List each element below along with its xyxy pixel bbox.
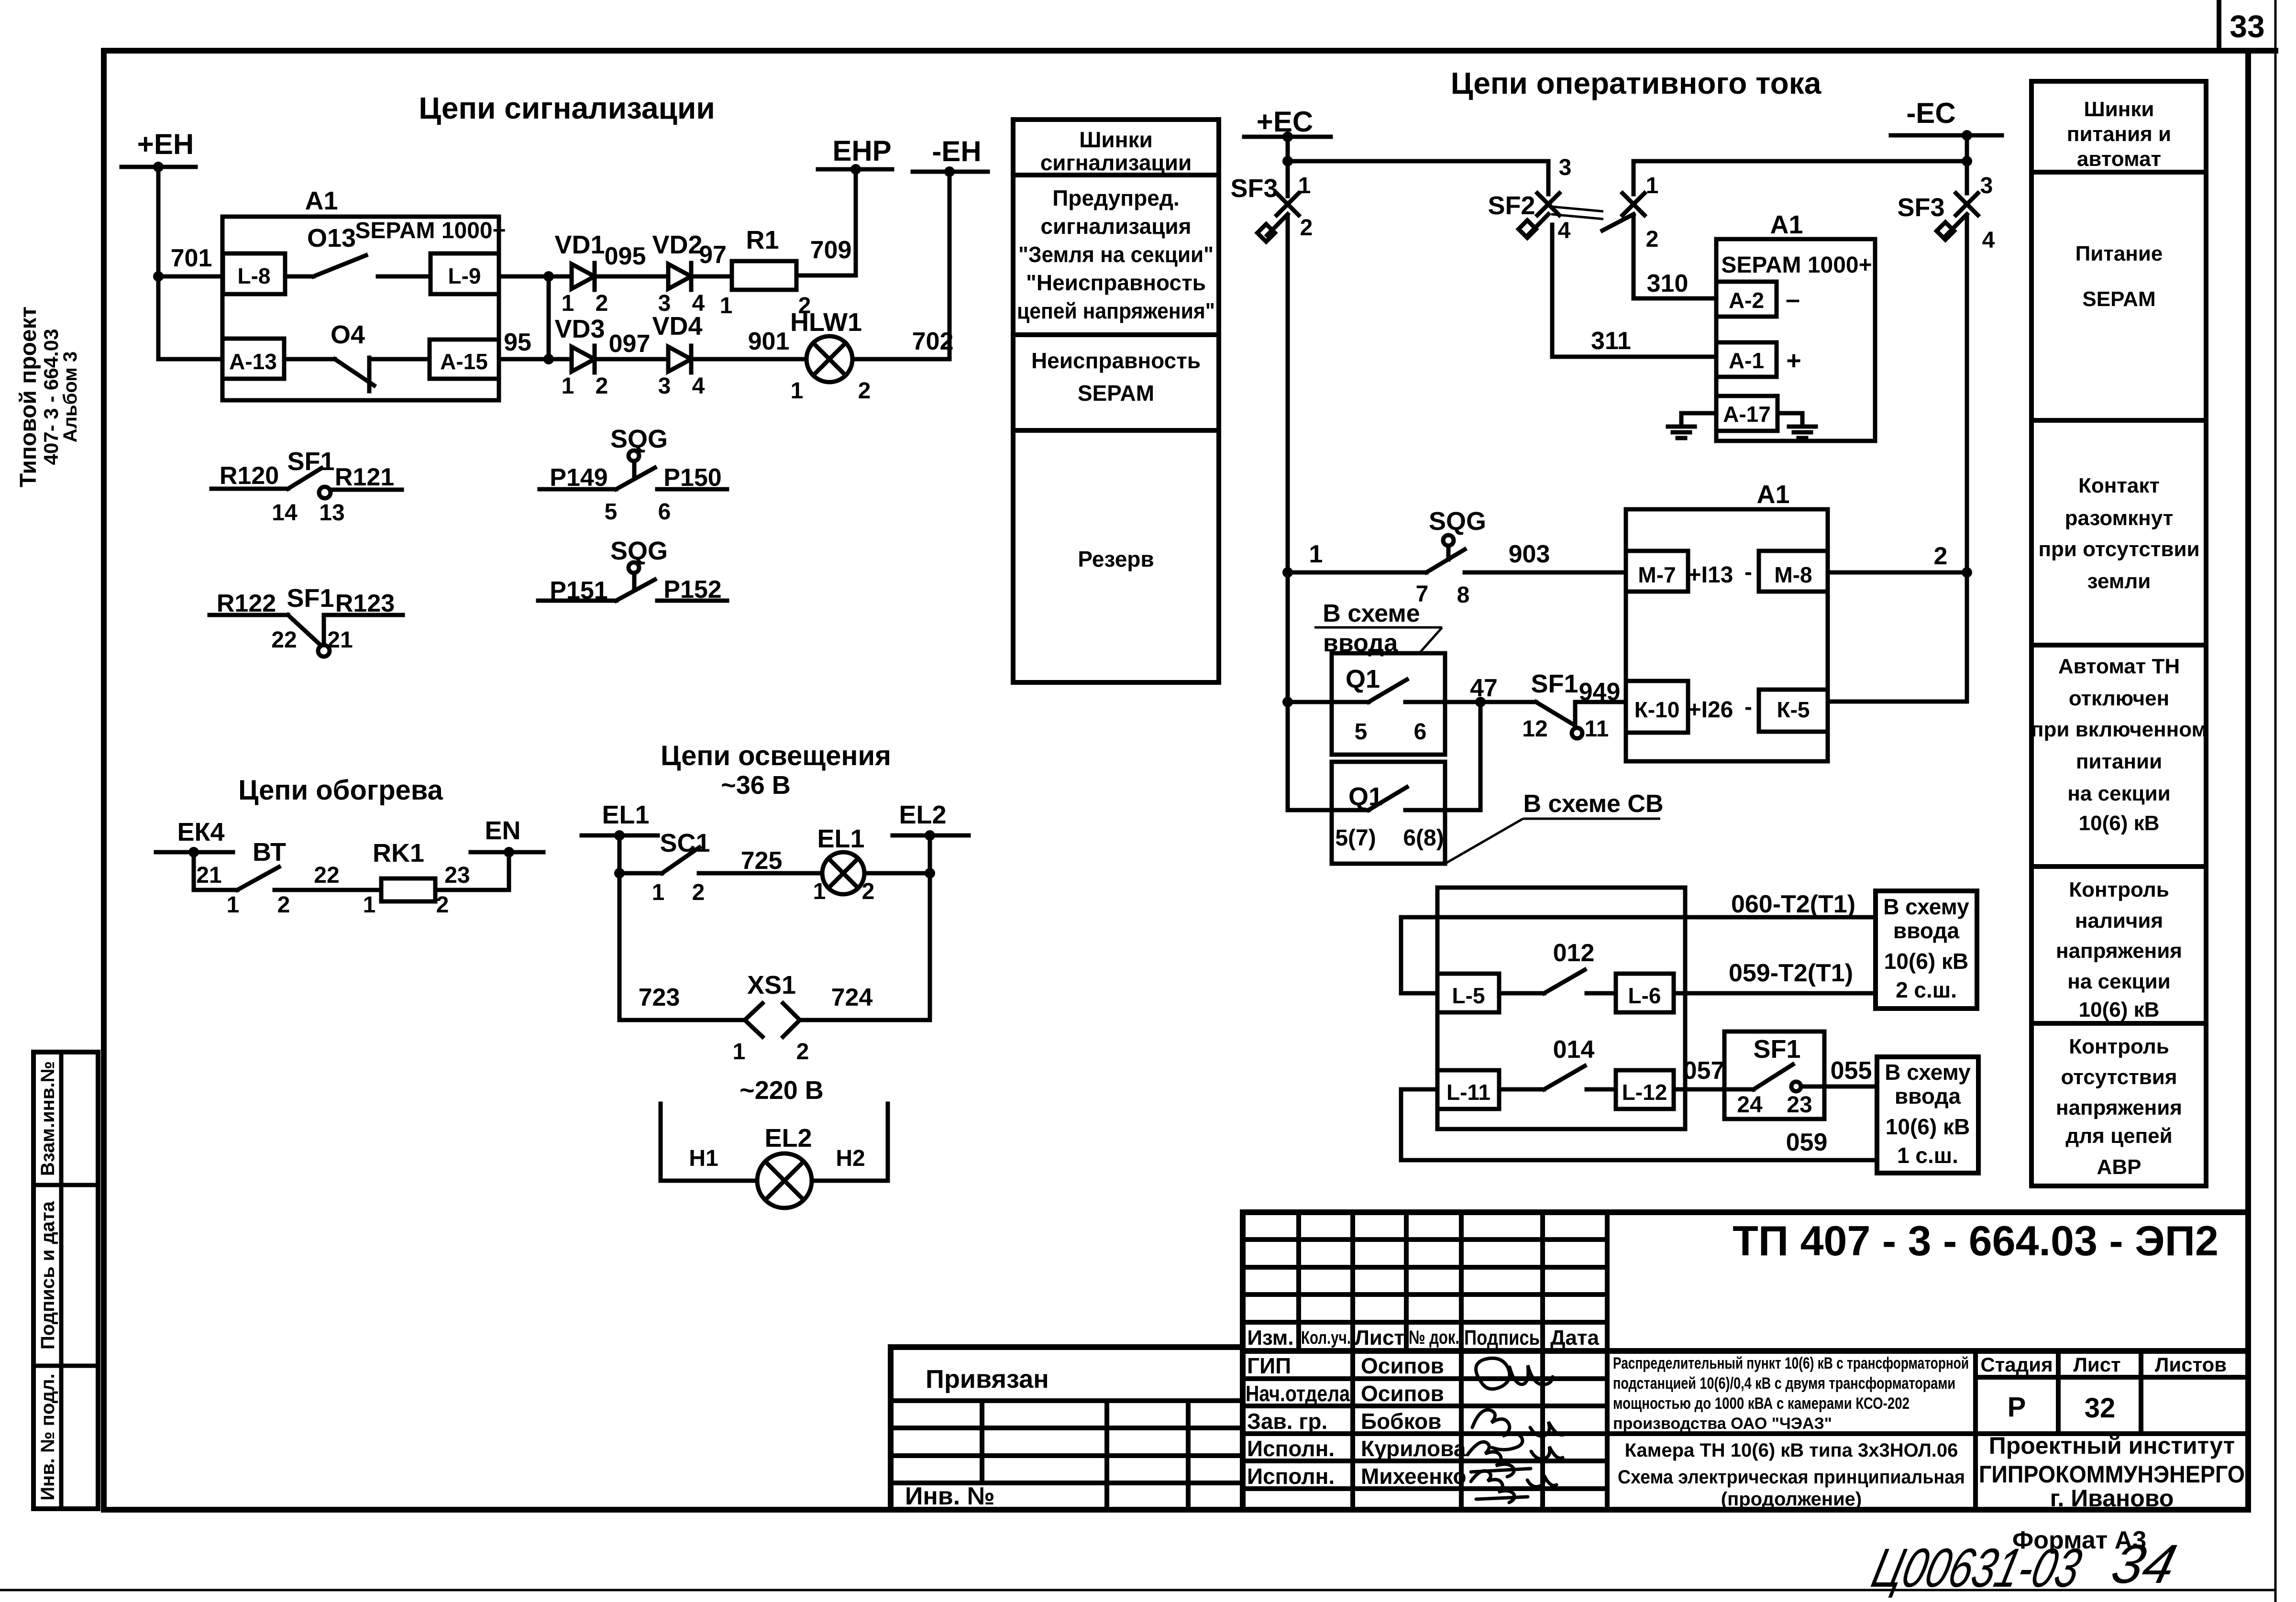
relay unit A1 box (M/K terminals) [1626, 509, 1828, 761]
box В схему ввода 1 с.ш. [1877, 1057, 1978, 1173]
svg-text:Взам.инв.№: Взам.инв.№ [37, 1061, 58, 1176]
signature Осипов [1476, 1358, 1553, 1389]
signature Курилова [1468, 1442, 1563, 1477]
svg-text:2: 2 [1646, 227, 1659, 252]
wire 1 to SQG [1288, 571, 1426, 575]
svg-text:SF1: SF1 [287, 447, 334, 476]
svg-text:10(6) кВ: 10(6) кВ [2079, 812, 2160, 835]
svg-text:Зав. гр.: Зав. гр. [1247, 1409, 1327, 1434]
svg-text:8: 8 [1457, 582, 1470, 608]
svg-text:В схему: В схему [1885, 1060, 1971, 1085]
svg-text:"Земля на секции": "Земля на секции" [1018, 242, 1214, 267]
svg-text:R1: R1 [746, 226, 779, 254]
wire RK1 to EN [435, 852, 509, 890]
svg-text:при включенном: при включенном [2031, 718, 2207, 741]
wire +EC to SF2 [1288, 161, 1548, 194]
svg-text:А-15: А-15 [440, 349, 488, 374]
svg-text:Н1: Н1 [689, 1146, 718, 1171]
svg-text:на секции: на секции [2067, 970, 2170, 993]
svg-text:Лист: Лист [2073, 1353, 2120, 1376]
node 47 [1475, 697, 1486, 707]
svg-text:2 с.ш.: 2 с.ш. [1896, 977, 1957, 1002]
svg-text:Формат А3: Формат А3 [2012, 1526, 2146, 1554]
svg-text:ГИП: ГИП [1247, 1353, 1291, 1378]
svg-text:Н2: Н2 [836, 1146, 865, 1171]
svg-text:SQG: SQG [610, 537, 668, 565]
svg-text:~36 В: ~36 В [721, 771, 791, 800]
svg-text:VD2: VD2 [652, 230, 702, 259]
svg-text:сигнализации: сигнализации [1040, 150, 1192, 175]
voltage control unit box [1437, 888, 1685, 1129]
breaker Q1 upper box [1332, 653, 1445, 755]
wire 701 [158, 274, 223, 279]
svg-text:Привязан: Привязан [926, 1365, 1049, 1394]
svg-text:24: 24 [1737, 1092, 1763, 1118]
svg-text:L-5: L-5 [1452, 983, 1485, 1008]
svg-text:6: 6 [1414, 719, 1427, 745]
svg-text:Стадия: Стадия [1980, 1353, 2053, 1376]
svg-text:055: 055 [1831, 1057, 1872, 1085]
contact Q1 lower [1288, 808, 1369, 812]
svg-text:Q1: Q1 [1346, 665, 1380, 693]
terminal K-5 [1759, 690, 1828, 732]
svg-text:ЕК4: ЕК4 [177, 818, 224, 846]
wire into L-5 [1401, 991, 1437, 996]
svg-text:1: 1 [227, 892, 240, 918]
svg-text:Контроль: Контроль [2069, 878, 2169, 901]
svg-text:2: 2 [596, 373, 608, 399]
wire EK4 down [194, 852, 237, 890]
svg-text:XS1: XS1 [747, 971, 796, 999]
svg-text:Типовой проект: Типовой проект [16, 307, 41, 487]
svg-text:723: 723 [639, 984, 680, 1011]
svg-text:Инв. №: Инв. № [905, 1482, 995, 1510]
svg-text:701: 701 [171, 244, 212, 272]
bottom wire 723 [619, 1018, 745, 1022]
svg-text:напряжения: напряжения [2056, 1096, 2182, 1119]
svg-text:2: 2 [1934, 542, 1948, 570]
svg-text:2: 2 [862, 879, 875, 904]
svg-text:разомкнут: разомкнут [2065, 506, 2174, 530]
svg-text:подстанцией 10(6)/0,4 кВ с дву: подстанцией 10(6)/0,4 кВ с двумя трансфо… [1613, 1374, 1955, 1393]
wire 702 [852, 357, 949, 362]
svg-text:057: 057 [1683, 1057, 1725, 1085]
svg-text:А1: А1 [1756, 480, 1789, 509]
svg-text:1 с.ш.: 1 с.ш. [1897, 1143, 1958, 1168]
wire into L-11 [1401, 1087, 1437, 1092]
svg-text:L-6: L-6 [1628, 983, 1661, 1008]
node on left rail K row [1282, 697, 1293, 707]
vertical link 95 [547, 276, 551, 359]
node 701 junction [153, 271, 164, 282]
svg-text:В схеме СВ: В схеме СВ [1523, 790, 1663, 818]
svg-text:Осипов: Осипов [1361, 1353, 1444, 1378]
ground left of A-17 [1681, 413, 1716, 427]
svg-text:Кол.уч.: Кол.уч. [1301, 1328, 1351, 1348]
stage/sheet sub-table [1973, 1351, 1978, 1510]
svg-text:33: 33 [2230, 9, 2264, 44]
svg-text:EL2: EL2 [899, 801, 946, 829]
svg-text:R120: R120 [220, 462, 279, 490]
svg-text:Проектный институт: Проектный институт [1989, 1432, 2235, 1459]
wire 059 bottom bypass [1401, 1089, 1877, 1160]
svg-text:Бобков: Бобков [1361, 1409, 1441, 1434]
svg-text:SC1: SC1 [660, 829, 710, 857]
svg-text:отключен: отключен [2069, 687, 2169, 710]
svg-text:SQG: SQG [610, 425, 668, 453]
svg-text:АВР: АВР [2097, 1155, 2141, 1179]
wire 311 from SF2 [1552, 225, 1716, 357]
svg-text:21: 21 [327, 627, 353, 653]
svg-text:цепей напряжения": цепей напряжения" [1017, 298, 1215, 323]
svg-text:-: - [1744, 560, 1752, 585]
lamp EL2 circuit stubs [661, 1104, 757, 1181]
node 1 on left rail [1282, 567, 1293, 578]
svg-text:949: 949 [1579, 678, 1621, 706]
wire 310 [1634, 215, 1716, 298]
wire 097 [595, 357, 668, 362]
terminal A-2 [1716, 282, 1777, 317]
svg-text:А-17: А-17 [1723, 402, 1771, 427]
wire from +EH down [158, 167, 222, 359]
svg-text:(продолжение): (продолжение) [1721, 1489, 1862, 1510]
wire 2 from M-8 to right rail [1828, 571, 1967, 575]
box В схему ввода 2 с.ш. [1876, 891, 1977, 1009]
svg-text:310: 310 [1647, 270, 1689, 297]
wire lamp to right rail [864, 871, 930, 876]
svg-text:1: 1 [1646, 173, 1659, 198]
svg-text:5: 5 [605, 499, 618, 525]
wire 901 [691, 357, 806, 362]
svg-text:Альбом 3: Альбом 3 [60, 351, 81, 442]
paper right edge line [2274, 0, 2277, 1602]
node on +EH [153, 162, 164, 172]
svg-text:2: 2 [596, 291, 608, 316]
svg-text:VD1: VD1 [554, 230, 605, 259]
left rail down [618, 873, 622, 1020]
line under description [1607, 1431, 2248, 1436]
svg-text:1: 1 [813, 879, 826, 904]
svg-text:47: 47 [1470, 674, 1498, 702]
svg-text:Р: Р [2008, 1392, 2026, 1423]
svg-text:Курилова: Курилова [1361, 1436, 1466, 1461]
svg-text:Лист: Лист [1355, 1326, 1404, 1350]
svg-text:SF1: SF1 [287, 584, 334, 613]
svg-text:+I13: +I13 [1688, 562, 1733, 588]
svg-text:3: 3 [658, 373, 671, 399]
svg-text:EL1: EL1 [817, 824, 864, 853]
breaker contact 1-2 [1623, 193, 1645, 215]
svg-text:R121: R121 [335, 463, 394, 491]
mechanical link SF2 [1551, 207, 1603, 211]
svg-text:питания и: питания и [2067, 122, 2171, 146]
wire 095 [595, 274, 668, 279]
left margin stamp box (Взам.инв.№ / Подпись и дата / Инв. № подл.) [33, 1052, 98, 1509]
relay unit A1 SEPAM box [1716, 239, 1875, 441]
svg-text:SEPAM 1000+: SEPAM 1000+ [355, 218, 506, 243]
right rail down [928, 873, 932, 1020]
svg-text:2: 2 [277, 892, 290, 918]
wire +EC down [1286, 137, 1290, 165]
svg-text:-ЕН: -ЕН [932, 135, 981, 167]
wire to VD3 [499, 357, 572, 362]
svg-text:3: 3 [1980, 173, 1993, 198]
svg-text:Подпись: Подпись [1464, 1326, 1540, 1350]
paper bottom edge line [0, 1589, 2275, 1591]
wire 059-T2(T1) [1674, 991, 1876, 996]
svg-text:Нач.отдела: Нач.отдела [1246, 1381, 1350, 1406]
svg-text:1: 1 [363, 892, 376, 918]
svg-text:VD4: VD4 [652, 312, 702, 340]
svg-text:Питание: Питание [2075, 242, 2163, 265]
svg-text:EL1: EL1 [602, 801, 649, 829]
svg-text:2: 2 [692, 880, 705, 905]
svg-text:22: 22 [271, 627, 297, 653]
svg-text:М-8: М-8 [1774, 562, 1812, 587]
svg-text:4: 4 [1982, 228, 1995, 253]
wire lamp EL2 right [812, 1104, 888, 1181]
svg-text:23: 23 [444, 863, 470, 888]
svg-text:725: 725 [741, 847, 783, 875]
svg-text:В схеме: В схеме [1323, 600, 1420, 627]
svg-text:14: 14 [272, 500, 298, 526]
svg-text:Неисправность: Неисправность [1031, 348, 1201, 373]
wire L-9 to diodes [499, 274, 572, 279]
contact Q1 upper [1288, 700, 1369, 704]
svg-text:М-7: М-7 [1638, 562, 1676, 587]
svg-text:702: 702 [912, 328, 954, 355]
svg-text:SEPAM 1000+: SEPAM 1000+ [1721, 252, 1872, 278]
svg-text:Камера ТН 10(6) кВ типа 3х3НОЛ: Камера ТН 10(6) кВ типа 3х3НОЛ.06 [1625, 1440, 1958, 1461]
svg-text:095: 095 [605, 242, 646, 270]
svg-text:К-10: К-10 [1634, 697, 1680, 722]
svg-text:Распределительный пункт 10(6): Распределительный пункт 10(6) кВ с транс… [1613, 1354, 1969, 1372]
ground right of A-17 [1777, 413, 1802, 427]
svg-text:Подпись и дата: Подпись и дата [37, 1201, 58, 1350]
svg-text:Шинки: Шинки [1079, 127, 1153, 152]
svg-text:21: 21 [196, 863, 221, 888]
svg-text:К-5: К-5 [1777, 697, 1810, 722]
svg-text:060-Т2(Т1): 060-Т2(Т1) [1731, 890, 1855, 918]
svg-text:ТП 407 - 3 - 664.03 - ЭП2: ТП 407 - 3 - 664.03 - ЭП2 [1733, 1217, 2219, 1264]
svg-text:4: 4 [692, 373, 705, 399]
svg-text:Исполн.: Исполн. [1247, 1436, 1335, 1461]
svg-text:6(8): 6(8) [1403, 825, 1444, 851]
svg-text:при отсутствии: при отсутствии [2038, 538, 2199, 561]
svg-text:1: 1 [733, 1039, 746, 1064]
terminal A-13 [222, 339, 284, 379]
svg-text:1: 1 [1309, 540, 1323, 568]
svg-text:Исполн.: Исполн. [1247, 1464, 1335, 1489]
svg-text:13: 13 [319, 500, 344, 526]
svg-text:059: 059 [1786, 1129, 1828, 1156]
svg-text:SF1: SF1 [1531, 669, 1578, 698]
wire 97 [691, 274, 732, 279]
page number box top right [2217, 0, 2221, 51]
svg-text:автомат: автомат [2077, 147, 2161, 171]
svg-text:О4: О4 [331, 320, 365, 349]
svg-text:Дата: Дата [1550, 1326, 1599, 1350]
wire 057 [1674, 1087, 1724, 1092]
svg-text:ГИПРОКОММУНЭНЕРГО: ГИПРОКОММУНЭНЕРГО [1979, 1461, 2245, 1488]
svg-text:97: 97 [699, 241, 727, 269]
svg-text:земли: земли [2087, 570, 2151, 593]
svg-text:О13: О13 [307, 224, 356, 252]
wire 709 up to EHP [796, 169, 856, 275]
svg-text:EL2: EL2 [764, 1124, 812, 1152]
svg-text:–: – [1786, 285, 1800, 314]
svg-text:№ док.: № док. [1409, 1327, 1459, 1348]
svg-text:А1: А1 [305, 187, 338, 215]
svg-text:А1: А1 [1770, 210, 1803, 239]
svg-text:Цепи оперативного тока: Цепи оперативного тока [1451, 66, 1821, 100]
svg-text:901: 901 [748, 328, 790, 355]
svg-text:724: 724 [831, 984, 873, 1011]
svg-text:709: 709 [810, 236, 852, 264]
svg-text:ввода: ввода [1893, 918, 1960, 943]
svg-text:SF3: SF3 [1897, 193, 1944, 222]
svg-text:SQG: SQG [1429, 507, 1486, 536]
svg-text:059-Т2(Т1): 059-Т2(Т1) [1729, 959, 1853, 987]
svg-text:-ЕС: -ЕС [1906, 97, 1955, 129]
svg-text:407- 3 - 664.03: 407- 3 - 664.03 [40, 329, 62, 465]
svg-text:L-12: L-12 [1622, 1080, 1667, 1105]
svg-text:А-13: А-13 [229, 349, 277, 374]
svg-text:+ЕН: +ЕН [137, 128, 194, 160]
svg-text:10(6) кВ: 10(6) кВ [1886, 1114, 1970, 1139]
terminal M-7 [1626, 551, 1688, 592]
svg-text:32: 32 [2085, 1393, 2116, 1424]
wire K-5 to right rail [1828, 700, 1967, 704]
terminal L-9 [430, 253, 499, 294]
terminal L-12 [1616, 1070, 1674, 1109]
svg-text:RK1: RK1 [373, 839, 424, 867]
svg-text:Цепи обогрева: Цепи обогрева [238, 775, 443, 806]
relay unit A1 (SEPAM 1000+) box [222, 217, 499, 400]
svg-text:L-9: L-9 [448, 263, 481, 288]
svg-text:1: 1 [791, 378, 804, 404]
svg-text:Михеенко: Михеенко [1361, 1464, 1467, 1489]
svg-text:Осипов: Осипов [1361, 1381, 1444, 1406]
svg-text:питании: питании [2076, 750, 2162, 773]
svg-text:2: 2 [436, 892, 449, 918]
terminal K-10 [1626, 681, 1688, 733]
svg-text:SEPAM: SEPAM [1078, 381, 1154, 406]
svg-text:L-8: L-8 [238, 263, 271, 288]
svg-text:Цепи освещения: Цепи освещения [661, 740, 891, 771]
svg-text:Цепи сигнализации: Цепи сигнализации [419, 91, 715, 125]
terminal L-8 [223, 253, 285, 294]
svg-text:Схема электрическая принципиал: Схема электрическая принципиальная [1618, 1467, 1965, 1488]
svg-text:6: 6 [658, 499, 671, 525]
svg-text:отсутствия: отсутствия [2061, 1065, 2177, 1089]
svg-text:11: 11 [1585, 716, 1609, 742]
svg-text:SF1: SF1 [1753, 1035, 1800, 1064]
svg-text:23: 23 [1787, 1092, 1812, 1118]
svg-text:1: 1 [652, 880, 665, 905]
wire 724 [800, 1018, 930, 1022]
svg-text:наличия: наличия [2075, 909, 2163, 933]
svg-text:сигнализация: сигнализация [1040, 214, 1191, 239]
svg-text:Инв. № подл.: Инв. № подл. [37, 1373, 58, 1500]
svg-text:Автомат ТН: Автомат ТН [2058, 655, 2180, 678]
svg-text:2: 2 [796, 1039, 809, 1064]
svg-text:~220 В: ~220 В [740, 1076, 824, 1105]
svg-text:"Неисправность: "Неисправность [1026, 270, 1206, 295]
svg-text:VD3: VD3 [554, 315, 605, 343]
svg-text:на секции: на секции [2067, 782, 2170, 805]
svg-text:3: 3 [1559, 155, 1572, 180]
terminal A-17 [1716, 396, 1777, 431]
node 95 junction top [543, 271, 554, 282]
right rail down [1965, 215, 1969, 702]
svg-text:1: 1 [562, 291, 574, 316]
svg-text:Предупред.: Предупред. [1052, 186, 1180, 210]
signature Бобков [1472, 1410, 1565, 1449]
wire from bus -EC to contact 1 [1634, 161, 1967, 194]
svg-text:10(6) кВ: 10(6) кВ [2079, 998, 2160, 1021]
svg-text:напряжения: напряжения [2056, 939, 2182, 963]
svg-text:-: - [1744, 694, 1752, 720]
wire 060-T2(T1) [1401, 917, 1876, 993]
svg-text:1: 1 [1298, 173, 1311, 198]
breaker SF1 box [1724, 1031, 1824, 1119]
svg-text:Листов: Листов [2155, 1353, 2227, 1376]
svg-text:В схему: В схему [1883, 894, 1969, 919]
svg-text:Резерв: Резерв [1078, 547, 1154, 571]
svg-text:2: 2 [1300, 215, 1313, 241]
svg-text:+: + [1786, 346, 1801, 375]
signal bus legend table (Шинки сигнализации) [1013, 120, 1219, 682]
svg-text:Изм.: Изм. [1247, 1326, 1293, 1350]
svg-text:SF3: SF3 [1230, 174, 1278, 203]
title block row lines (left part) [1243, 1237, 1607, 1242]
terminal A-1 [1716, 342, 1777, 377]
svg-text:Шинки: Шинки [2084, 98, 2154, 121]
terminal L-5 [1437, 974, 1499, 1012]
svg-text:мощностью до 1000 кВА с камера: мощностью до 1000 кВА с камерами КСО-202 [1613, 1394, 1910, 1413]
svg-text:для цепей: для цепей [2065, 1124, 2172, 1148]
power bus legend table (Шинки питания и автомат) [2031, 81, 2206, 1186]
title block outer [1243, 1212, 2248, 1510]
svg-text:1: 1 [562, 373, 574, 399]
svg-text:10(6) кВ: 10(6) кВ [1884, 949, 1968, 974]
svg-text:г. Иваново: г. Иваново [2050, 1485, 2174, 1512]
svg-text:097: 097 [609, 330, 651, 358]
svg-text:311: 311 [1591, 327, 1631, 355]
svg-text:А-2: А-2 [1729, 288, 1764, 313]
signature Михеенко [1471, 1471, 1556, 1503]
contact SF1 24-23 [1724, 1087, 1754, 1092]
wire -EH down to 702 [948, 172, 952, 359]
svg-text:12: 12 [1522, 716, 1547, 742]
svg-text:4: 4 [1558, 218, 1571, 243]
svg-text:SEPAM: SEPAM [2082, 287, 2155, 311]
svg-text:014: 014 [1553, 1036, 1595, 1064]
svg-text:EN: EN [485, 816, 520, 845]
svg-text:012: 012 [1553, 939, 1595, 967]
svg-text:ввода: ввода [1895, 1084, 1961, 1108]
breaker Q1 lower box [1332, 762, 1445, 864]
svg-text:22: 22 [314, 863, 339, 888]
title block column lines [1296, 1212, 1301, 1351]
terminal L-6 [1616, 974, 1674, 1012]
svg-text:Контакт: Контакт [2078, 474, 2160, 497]
svg-text:Контроль: Контроль [2069, 1035, 2169, 1058]
svg-text:903: 903 [1509, 540, 1550, 568]
svg-text:L-11: L-11 [1446, 1080, 1490, 1105]
svg-text:ВТ: ВТ [253, 838, 286, 867]
